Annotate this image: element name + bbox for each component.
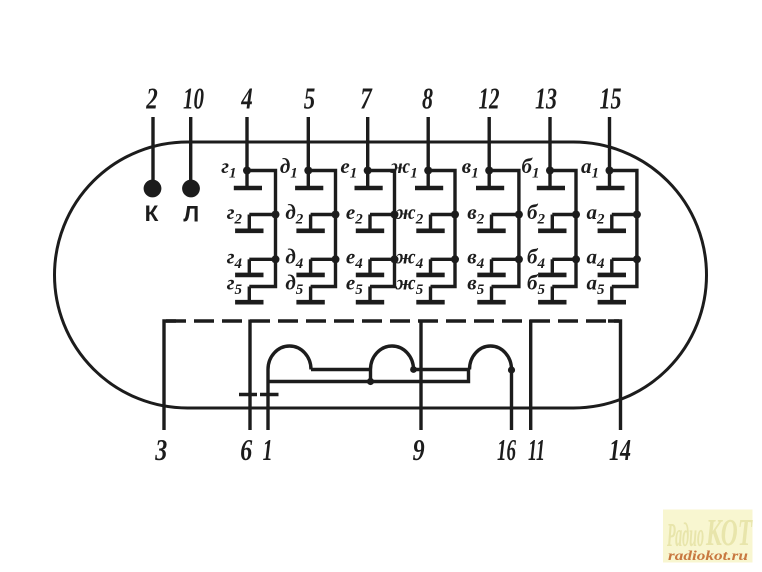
svg-text:5: 5 bbox=[304, 81, 316, 116]
wire strand 2 left leg bbox=[369, 370, 372, 382]
node г2 junction dot bbox=[272, 211, 280, 219]
svg-text:12: 12 bbox=[479, 81, 500, 116]
wire е4 tap bbox=[370, 258, 395, 261]
node в2 junction dot bbox=[515, 211, 523, 219]
pin 13 lead (segment б) bbox=[548, 117, 551, 171]
node е1 junction dot bbox=[364, 167, 372, 175]
anode segment ж2 bbox=[416, 215, 444, 231]
electrode L dot bbox=[182, 180, 200, 198]
svg-text:7: 7 bbox=[360, 81, 373, 116]
watermark bbox=[663, 510, 753, 564]
node д4 junction dot bbox=[332, 255, 340, 263]
pin 15 lead (segment а) bbox=[608, 117, 611, 171]
wire в2 tap bbox=[492, 213, 519, 216]
wire г4 tap bbox=[249, 258, 275, 261]
anode segment д1 bbox=[295, 171, 323, 189]
anode segment г1 bbox=[234, 171, 262, 189]
tube envelope bbox=[55, 142, 707, 408]
node е4 junction dot bbox=[391, 255, 399, 263]
node б4 junction dot bbox=[572, 255, 580, 263]
anode segment а2 bbox=[598, 215, 626, 231]
bus wire б1-б2-б4-б5 bbox=[550, 171, 576, 287]
wire ж4 tap bbox=[431, 258, 456, 261]
wire а2 tap bbox=[612, 213, 637, 216]
node г1 junction dot bbox=[243, 167, 251, 175]
bus wire д1-д2-д4-д5 bbox=[308, 171, 335, 287]
node е2 junction dot bbox=[391, 211, 399, 219]
node б1 junction dot bbox=[546, 167, 554, 175]
svg-text:К: К bbox=[145, 201, 159, 226]
node б2 junction dot bbox=[572, 211, 580, 219]
wire е2 tap bbox=[370, 213, 395, 216]
anode segment а5 bbox=[598, 287, 626, 303]
svg-text:15: 15 bbox=[600, 81, 622, 116]
pin 3 lead (grid) bbox=[164, 321, 176, 430]
node д2 junction dot bbox=[332, 211, 340, 219]
node а4 junction dot bbox=[633, 255, 641, 263]
anode segment д4 bbox=[296, 259, 324, 275]
pin 12 lead (segment в) bbox=[488, 117, 491, 171]
anode segment в4 bbox=[477, 259, 505, 275]
anode segment б2 bbox=[538, 215, 566, 231]
anode segment б4 bbox=[538, 259, 566, 275]
svg-text:8: 8 bbox=[422, 81, 433, 116]
pin 1 lead (filament) bbox=[266, 370, 269, 431]
anode segment е4 bbox=[356, 259, 384, 275]
filament strand 1 bbox=[268, 346, 311, 370]
anode segment г4 bbox=[235, 259, 263, 275]
pin 2 lead bbox=[151, 117, 154, 181]
pin 9 lead (grid) bbox=[419, 320, 422, 431]
wire б4 tap bbox=[552, 258, 576, 261]
wire б2 tap bbox=[552, 213, 576, 216]
pin 6 lead (grid) bbox=[248, 320, 251, 431]
anode segment е2 bbox=[356, 215, 384, 231]
node ж2 junction dot bbox=[451, 211, 459, 219]
bus wire г1-г2-г4-г5 bbox=[247, 171, 276, 287]
pin 8 lead (segment ж) bbox=[427, 117, 430, 171]
anode segment д5 bbox=[296, 287, 324, 303]
svg-text:16: 16 bbox=[497, 432, 516, 467]
svg-text:10: 10 bbox=[183, 81, 204, 116]
anode segment б1 bbox=[537, 171, 565, 189]
anode segment в5 bbox=[477, 287, 505, 303]
bus wire е1-е2-е4-е5 bbox=[368, 171, 395, 287]
anode segment а4 bbox=[598, 259, 626, 275]
pin 7 lead (segment е) bbox=[366, 117, 369, 171]
bus wire ж1-ж2-ж4-ж5 bbox=[428, 171, 455, 287]
pin 5 lead (segment д) bbox=[307, 117, 310, 171]
node в4 junction dot bbox=[515, 255, 523, 263]
anode segment г5 bbox=[235, 287, 263, 303]
anode segment в2 bbox=[477, 215, 505, 231]
grid electrode (dashed) bbox=[166, 319, 619, 322]
anode segment в1 bbox=[476, 171, 504, 189]
wire д2 tap bbox=[311, 213, 336, 216]
wire д4 tap bbox=[311, 258, 336, 261]
anode segment ж1 bbox=[415, 171, 443, 189]
wire filament upper rail b bbox=[414, 368, 470, 371]
wire в4 tap bbox=[492, 258, 519, 261]
anode segment д2 bbox=[296, 215, 324, 231]
svg-text:4: 4 bbox=[241, 81, 253, 116]
node в1 junction dot bbox=[485, 167, 493, 175]
wire filament upper rail a bbox=[311, 368, 371, 371]
bus wire а1-а2-а4-а5 bbox=[610, 171, 637, 287]
svg-text:3: 3 bbox=[155, 432, 168, 467]
svg-text:6: 6 bbox=[240, 432, 252, 467]
anode segment ж4 bbox=[416, 259, 444, 275]
svg-text:Л: Л bbox=[183, 202, 199, 227]
wire ж2 tap bbox=[431, 213, 456, 216]
pin 1 tick bbox=[260, 393, 279, 396]
wire filament lower rail bbox=[268, 370, 469, 382]
electrode K dot bbox=[144, 180, 162, 198]
node а1 junction dot bbox=[606, 167, 614, 175]
node strand2-lower-rail dot bbox=[367, 378, 374, 385]
svg-text:radiokot.ru: radiokot.ru bbox=[668, 548, 749, 563]
filament strand 2 bbox=[371, 346, 414, 370]
pin 6 tick bbox=[239, 393, 257, 396]
bus wire в1-в2-в4-в5 bbox=[489, 171, 519, 287]
svg-text:14: 14 bbox=[609, 432, 631, 467]
anode segment б5 bbox=[538, 287, 566, 303]
svg-text:2: 2 bbox=[146, 81, 158, 116]
node а2 junction dot bbox=[633, 211, 641, 219]
anode segment е5 bbox=[356, 287, 384, 303]
anode segment ж5 bbox=[416, 287, 444, 303]
pin 14 lead (grid) bbox=[608, 321, 621, 430]
svg-text:13: 13 bbox=[535, 81, 557, 116]
filament strand 3 bbox=[470, 346, 512, 370]
node д1 junction dot bbox=[304, 167, 312, 175]
wire а4 tap bbox=[612, 258, 637, 261]
anode segment г2 bbox=[235, 215, 263, 231]
svg-text:11: 11 bbox=[528, 432, 545, 467]
pin 11 lead (grid) bbox=[529, 320, 532, 431]
node strand2-upper-rail dot bbox=[410, 366, 417, 373]
pin 10 lead bbox=[189, 117, 192, 181]
anode segment е1 bbox=[355, 171, 383, 189]
node г4 junction dot bbox=[272, 255, 280, 263]
wire г2 tap bbox=[249, 213, 275, 216]
svg-text:1: 1 bbox=[263, 432, 273, 467]
pin 4 lead (segment г) bbox=[245, 117, 248, 171]
node ж4 junction dot bbox=[451, 255, 459, 263]
node ж1 junction dot bbox=[424, 167, 432, 175]
svg-text:9: 9 bbox=[413, 432, 425, 467]
pin 16 lead (filament) bbox=[510, 370, 513, 431]
anode segment а1 bbox=[596, 171, 624, 189]
node pin16 dot bbox=[508, 366, 515, 373]
